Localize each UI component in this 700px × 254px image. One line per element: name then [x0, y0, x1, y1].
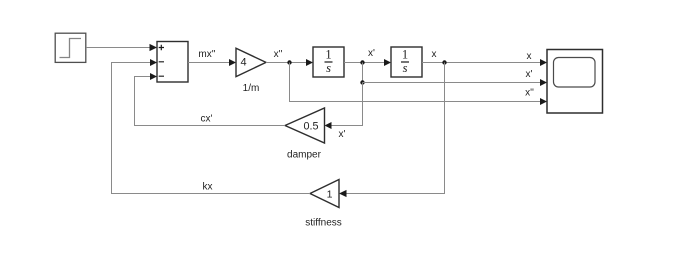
svg-text:stiffness: stiffness: [305, 218, 342, 229]
svg-text:x: x: [527, 51, 532, 62]
integrator 1: [313, 47, 344, 77]
wire sum to gain, signal mx'': [188, 49, 236, 66]
wire integrator2 to scope input 1, signal x: [422, 49, 547, 66]
svg-text:4: 4: [240, 57, 246, 69]
svg-text:x': x': [368, 48, 375, 59]
svg-text:x': x': [526, 69, 533, 80]
step source block: [55, 33, 86, 62]
svg-text:mx'': mx'': [198, 49, 215, 60]
svg-text:s: s: [403, 61, 408, 75]
svg-text:cx': cx': [201, 114, 213, 125]
svg-text:1: 1: [327, 188, 333, 200]
svg-text:x'': x'': [525, 88, 534, 99]
svg-text:x': x': [339, 129, 346, 140]
svg-text:damper: damper: [287, 150, 322, 161]
integrator 2: [391, 47, 422, 77]
wire stiffness output to sum input 2, signal kx: [112, 59, 311, 194]
svg-text:kx: kx: [203, 182, 213, 193]
svg-text:1: 1: [325, 48, 331, 62]
svg-text:x: x: [432, 49, 437, 60]
wire x' branch down to damper input: [325, 83, 363, 141]
wire damper output to sum input 3, signal cx': [135, 73, 286, 126]
svg-text:1: 1: [402, 48, 408, 62]
wire x'' branch to scope input 3: [290, 63, 548, 106]
damper gain block: [285, 108, 325, 161]
svg-text:1/m: 1/m: [243, 83, 260, 94]
svg-text:s: s: [326, 61, 331, 75]
svg-text:0.5: 0.5: [303, 121, 318, 133]
wire node x down to stiffness input: [339, 63, 445, 198]
node x' branch junction: [360, 80, 364, 84]
node x'' junction: [287, 60, 291, 64]
gain block 1/m: [236, 48, 266, 94]
stiffness gain block: [305, 180, 342, 229]
wire gain to integrator 1, signal x'': [266, 49, 313, 66]
scope block: [547, 50, 603, 114]
wire x' branch to scope input 2: [363, 79, 548, 86]
wire step to sum input 1: [86, 44, 157, 51]
svg-text:x'': x'': [274, 49, 283, 60]
sum block: [157, 42, 188, 83]
wire x' branch down: [362, 63, 364, 83]
node x junction: [442, 60, 446, 64]
wire integrator1 to integrator2, signal x': [344, 48, 391, 66]
node x' junction: [360, 60, 364, 64]
